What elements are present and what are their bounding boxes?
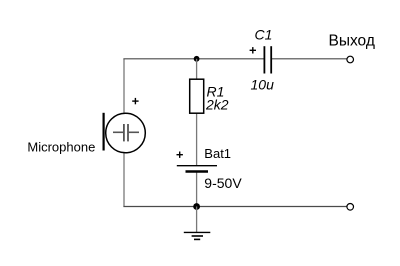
ground symbol [184, 232, 211, 239]
microphone membrane bar [102, 113, 104, 151]
resistor R1 body [190, 79, 204, 113]
svg-text:Microphone: Microphone [27, 139, 95, 154]
battery Bat1 negative plate [186, 170, 209, 172]
wire top rail left segment [123, 58, 264, 60]
microphone polarity plus [132, 98, 138, 104]
battery polarity plus [177, 152, 183, 158]
wire top rail right segment (cap to output) [272, 58, 347, 60]
svg-text:C1: C1 [255, 27, 273, 43]
capacitor polarity plus [250, 47, 256, 53]
wire bottom-left vertical (mic to bottom rail) [123, 153, 125, 207]
wire bottom rail [123, 206, 346, 208]
microphone body circle [106, 113, 146, 153]
wire battery to bottom rail [196, 172, 198, 207]
microphone internal capacitor left plate [123, 124, 125, 141]
svg-text:2k2: 2k2 [205, 97, 229, 113]
svg-text:Bat1: Bat1 [204, 146, 231, 161]
node junction top [194, 56, 200, 62]
svg-text:Выход: Выход [329, 33, 375, 50]
wire R1 to battery [196, 113, 198, 166]
svg-text:10u: 10u [251, 77, 275, 93]
output terminal top [347, 56, 354, 63]
node junction bottom [193, 203, 200, 210]
ground stem wire [196, 207, 198, 233]
capacitor C1 left plate [263, 46, 265, 73]
wire top-left vertical (mic to top rail) [123, 59, 125, 113]
svg-text:9-50V: 9-50V [204, 175, 242, 191]
output terminal bottom [347, 204, 354, 211]
capacitor C1 right plate [270, 46, 272, 73]
microphone internal capacitor right lead [129, 131, 139, 133]
battery Bat1 positive plate [177, 165, 217, 167]
wire junction to R1 [196, 59, 198, 80]
microphone internal capacitor right plate [127, 124, 129, 141]
microphone internal capacitor left lead [113, 131, 123, 133]
